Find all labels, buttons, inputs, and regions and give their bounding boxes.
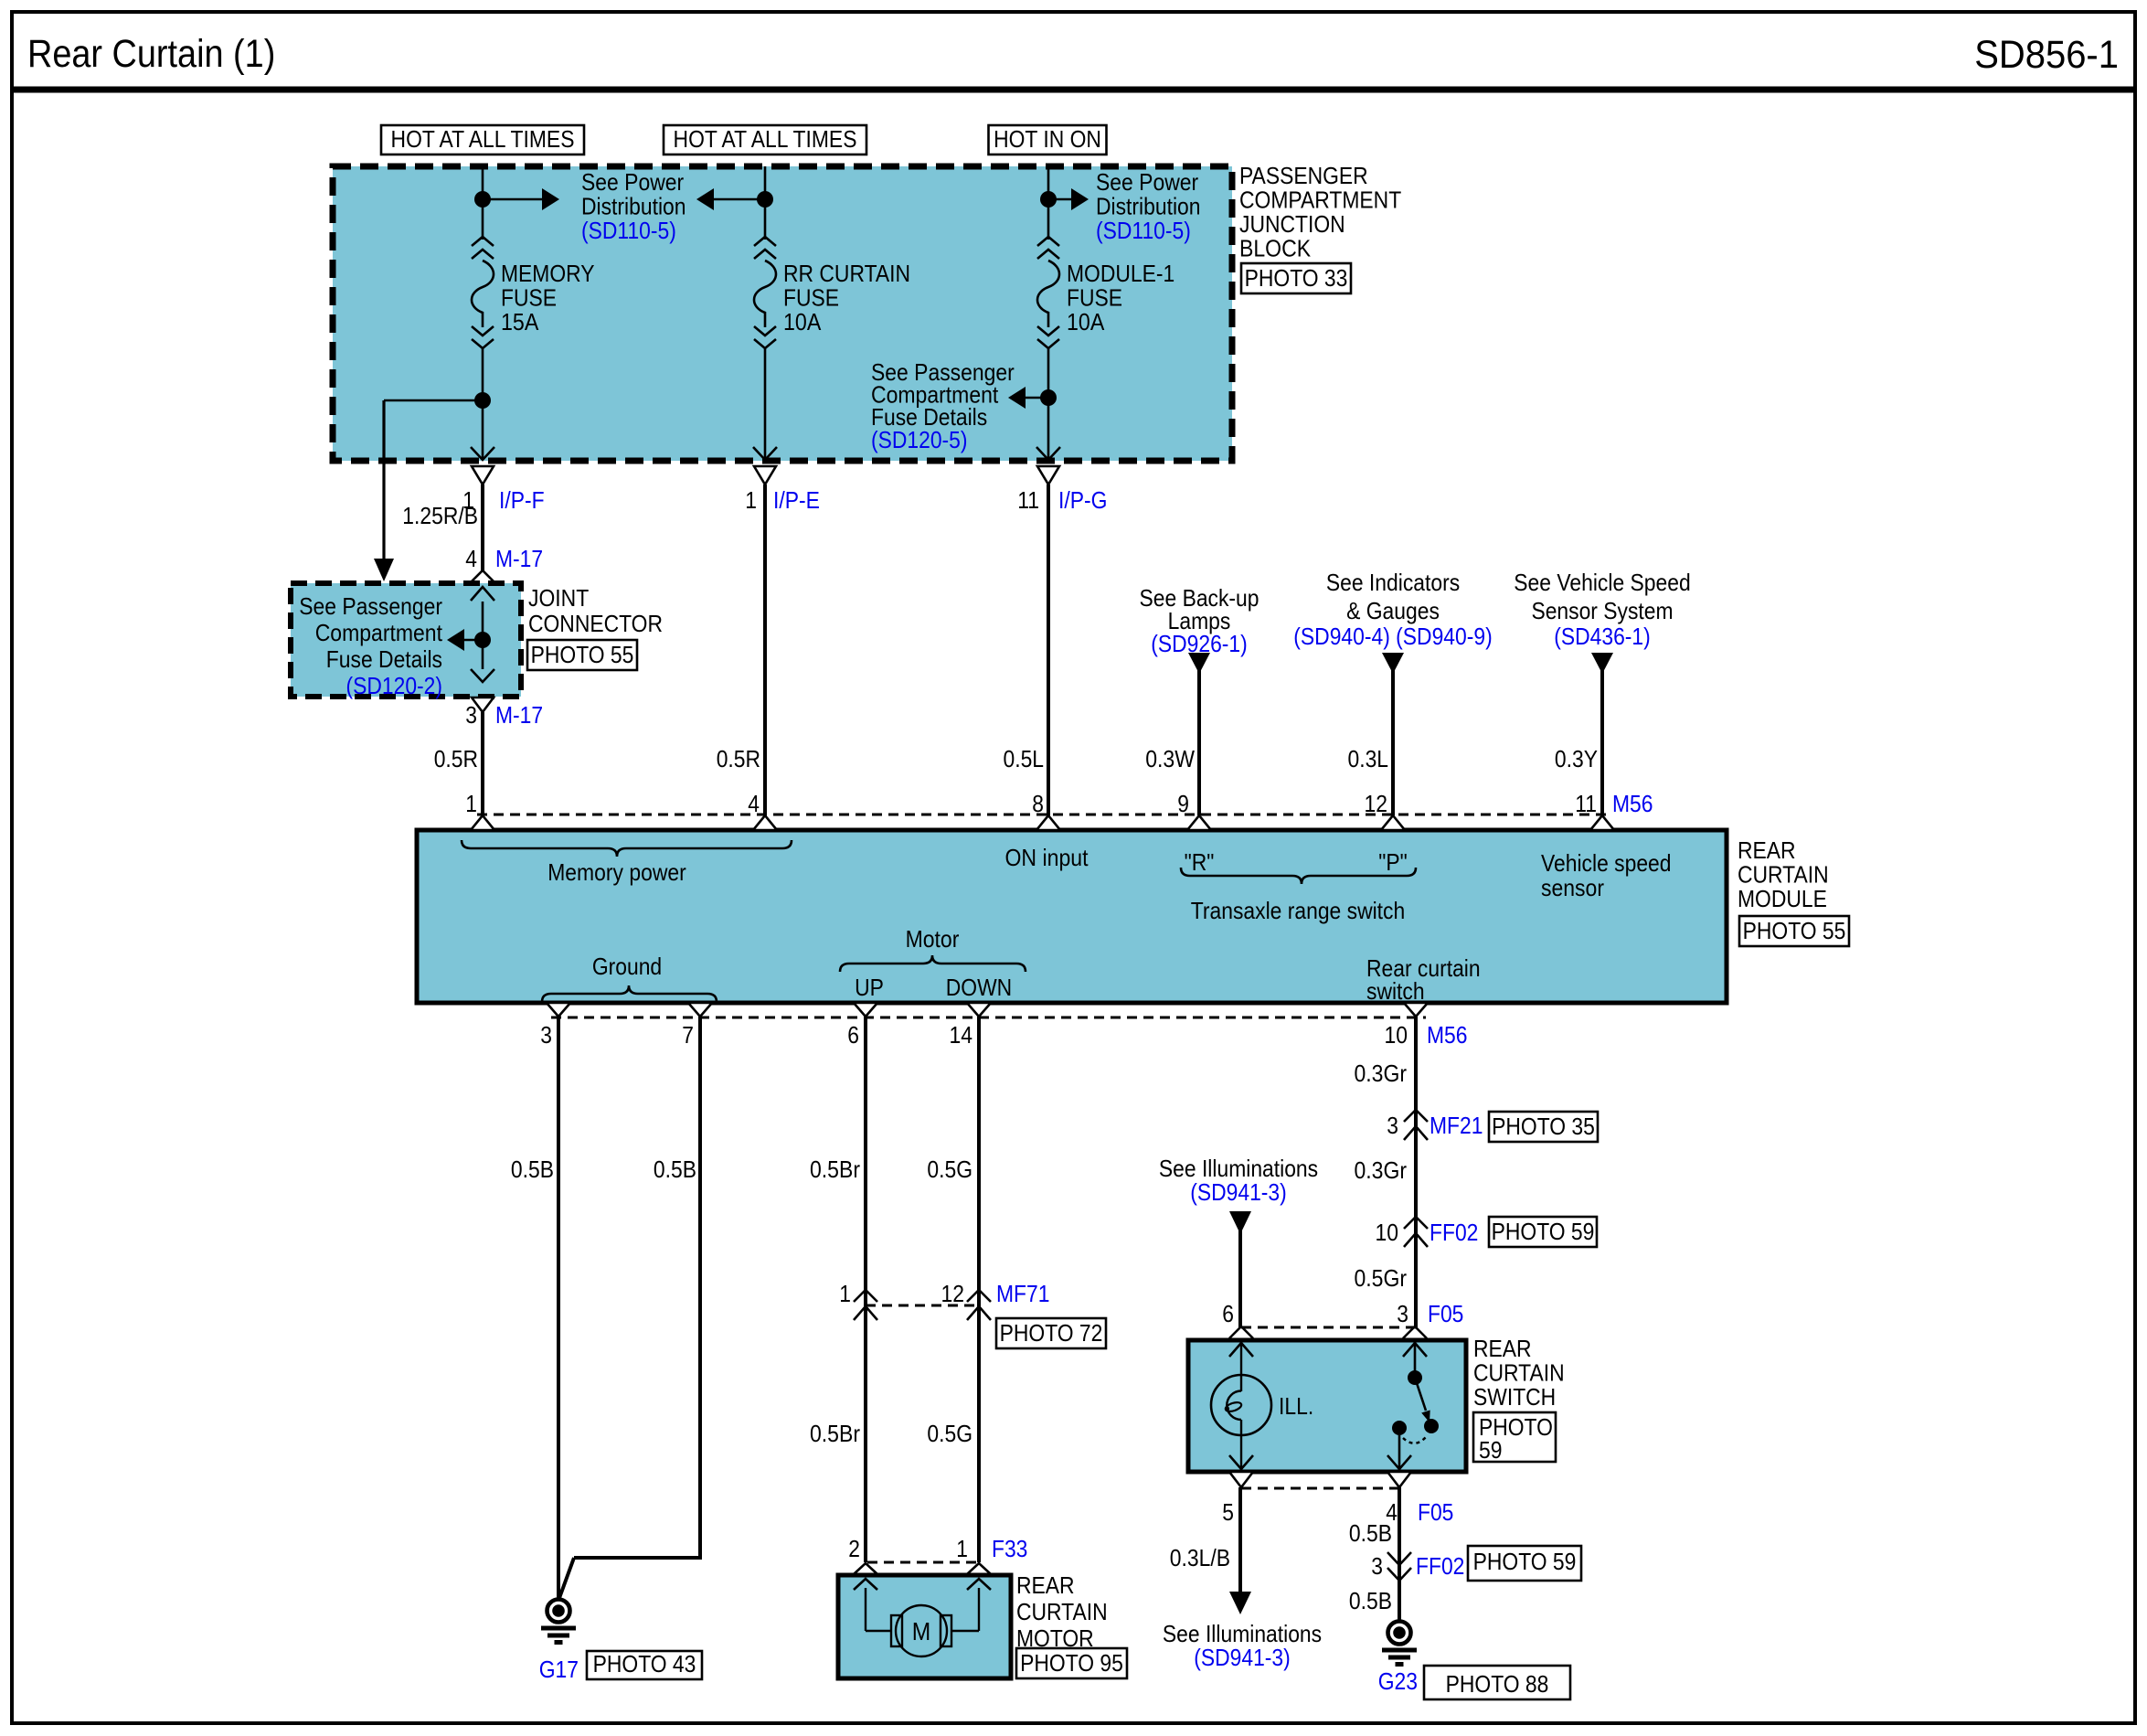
- svg-text:FUSE: FUSE: [501, 284, 557, 312]
- svg-text:(SD940-4) (SD940-9): (SD940-4) (SD940-9): [1293, 623, 1492, 650]
- svg-text:See Indicators: See Indicators: [1326, 569, 1460, 596]
- svg-text:ON input: ON input: [1005, 844, 1089, 871]
- svg-text:12: 12: [941, 1280, 965, 1307]
- svg-text:7: 7: [682, 1021, 694, 1049]
- svg-text:F33: F33: [992, 1535, 1027, 1562]
- svg-text:REAR: REAR: [1473, 1335, 1532, 1362]
- svg-text:Sensor System: Sensor System: [1531, 597, 1673, 624]
- svg-text:G23: G23: [1378, 1667, 1418, 1695]
- svg-text:4: 4: [748, 790, 760, 817]
- svg-text:DOWN: DOWN: [946, 974, 1012, 1001]
- svg-text:0.3L/B: 0.3L/B: [1170, 1544, 1230, 1571]
- svg-text:MF71: MF71: [996, 1280, 1050, 1307]
- svg-text:PHOTO 35: PHOTO 35: [1492, 1113, 1595, 1140]
- svg-text:COMPARTMENT: COMPARTMENT: [1239, 186, 1401, 214]
- svg-text:"R": "R": [1185, 848, 1215, 876]
- svg-text:UP: UP: [855, 974, 884, 1001]
- svg-text:(SD110-5): (SD110-5): [581, 217, 676, 244]
- svg-text:15A: 15A: [501, 308, 539, 335]
- svg-text:FUSE: FUSE: [783, 284, 839, 312]
- svg-text:CONNECTOR: CONNECTOR: [528, 610, 663, 637]
- svg-text:See Passenger: See Passenger: [299, 592, 442, 620]
- svg-text:0.3W: 0.3W: [1145, 745, 1195, 772]
- svg-text:(SD941-3): (SD941-3): [1190, 1178, 1287, 1206]
- svg-text:PHOTO 95: PHOTO 95: [1020, 1649, 1123, 1677]
- svg-text:3: 3: [1371, 1552, 1383, 1580]
- svg-text:6: 6: [847, 1021, 859, 1049]
- svg-text:MF21: MF21: [1430, 1112, 1483, 1139]
- svg-text:12: 12: [1365, 790, 1388, 817]
- svg-text:Motor: Motor: [906, 925, 960, 953]
- svg-text:CURTAIN: CURTAIN: [1738, 861, 1829, 889]
- svg-text:11: 11: [1575, 790, 1597, 817]
- svg-text:HOT AT ALL TIMES: HOT AT ALL TIMES: [674, 125, 857, 153]
- svg-text:SWITCH: SWITCH: [1473, 1383, 1556, 1411]
- svg-text:10A: 10A: [783, 308, 822, 335]
- svg-text:REAR: REAR: [1738, 836, 1796, 864]
- svg-text:0.3Gr: 0.3Gr: [1355, 1156, 1408, 1184]
- svg-text:0.3Y: 0.3Y: [1555, 745, 1598, 772]
- svg-text:PHOTO 88: PHOTO 88: [1446, 1670, 1549, 1698]
- svg-text:F05: F05: [1428, 1300, 1463, 1327]
- svg-text:0.5Br: 0.5Br: [810, 1420, 860, 1447]
- svg-text:F05: F05: [1418, 1498, 1453, 1526]
- svg-text:M-17: M-17: [495, 545, 543, 572]
- svg-text:PHOTO 59: PHOTO 59: [1473, 1548, 1577, 1575]
- svg-text:& Gauges: & Gauges: [1346, 597, 1440, 624]
- svg-text:MEMORY: MEMORY: [501, 260, 595, 287]
- svg-text:HOT AT ALL TIMES: HOT AT ALL TIMES: [391, 125, 575, 153]
- svg-text:(SD120-2): (SD120-2): [346, 672, 443, 699]
- svg-text:3: 3: [1397, 1300, 1408, 1327]
- svg-text:M: M: [912, 1617, 931, 1645]
- svg-text:M-17: M-17: [495, 701, 543, 729]
- svg-text:Distribution: Distribution: [1096, 193, 1201, 220]
- svg-text:3: 3: [540, 1021, 552, 1049]
- svg-text:1: 1: [956, 1535, 968, 1562]
- svg-text:PHOTO 55: PHOTO 55: [1743, 917, 1846, 944]
- svg-text:CURTAIN: CURTAIN: [1016, 1598, 1108, 1625]
- svg-text:"P": "P": [1378, 848, 1408, 876]
- svg-text:M56: M56: [1612, 790, 1653, 817]
- svg-text:PHOTO 55: PHOTO 55: [531, 641, 634, 668]
- svg-text:See Vehicle Speed: See Vehicle Speed: [1514, 569, 1690, 596]
- svg-text:JOINT: JOINT: [528, 584, 589, 612]
- svg-text:I/P-E: I/P-E: [773, 486, 820, 514]
- svg-text:1: 1: [745, 486, 757, 514]
- svg-text:Vehicle speed: Vehicle speed: [1541, 849, 1672, 877]
- svg-text:ILL.: ILL.: [1279, 1392, 1313, 1420]
- svg-text:G17: G17: [539, 1656, 579, 1683]
- svg-text:0.3L: 0.3L: [1348, 745, 1389, 772]
- svg-text:0.5G: 0.5G: [927, 1156, 973, 1183]
- svg-text:0.5Gr: 0.5Gr: [1355, 1264, 1408, 1292]
- svg-text:FF02: FF02: [1430, 1219, 1478, 1246]
- svg-text:1: 1: [465, 790, 477, 817]
- svg-text:(SD941-3): (SD941-3): [1194, 1644, 1291, 1671]
- svg-text:(SD110-5): (SD110-5): [1096, 217, 1191, 244]
- svg-text:Ground: Ground: [592, 953, 662, 980]
- svg-text:MODULE-1: MODULE-1: [1067, 260, 1174, 287]
- svg-text:HOT IN ON: HOT IN ON: [994, 125, 1101, 153]
- svg-text:PHOTO 72: PHOTO 72: [1000, 1319, 1103, 1347]
- svg-text:11: 11: [1017, 486, 1039, 514]
- svg-text:PHOTO 33: PHOTO 33: [1245, 264, 1348, 292]
- svg-text:PHOTO 59: PHOTO 59: [1492, 1218, 1595, 1245]
- svg-text:See Power: See Power: [1096, 168, 1198, 196]
- svg-text:Memory power: Memory power: [547, 858, 686, 886]
- svg-text:0.5R: 0.5R: [434, 745, 478, 772]
- svg-text:BLOCK: BLOCK: [1239, 235, 1312, 262]
- svg-text:1: 1: [462, 486, 474, 514]
- svg-text:I/P-F: I/P-F: [499, 486, 545, 514]
- svg-text:MODULE: MODULE: [1738, 885, 1827, 912]
- svg-text:0.5B: 0.5B: [511, 1156, 554, 1183]
- svg-text:0.5B: 0.5B: [654, 1156, 696, 1183]
- svg-text:0.5R: 0.5R: [717, 745, 760, 772]
- svg-text:REAR: REAR: [1016, 1571, 1075, 1599]
- svg-text:5: 5: [1222, 1498, 1234, 1526]
- svg-text:3: 3: [465, 701, 477, 729]
- svg-text:JUNCTION: JUNCTION: [1239, 210, 1345, 238]
- svg-text:59: 59: [1479, 1436, 1503, 1464]
- svg-text:PASSENGER: PASSENGER: [1239, 162, 1368, 189]
- svg-text:4: 4: [465, 545, 477, 572]
- svg-text:0.5B: 0.5B: [1349, 1519, 1392, 1547]
- svg-text:sensor: sensor: [1541, 874, 1604, 901]
- svg-text:SD856-1: SD856-1: [1974, 33, 2119, 77]
- svg-text:0.5G: 0.5G: [927, 1420, 973, 1447]
- svg-text:RR CURTAIN: RR CURTAIN: [783, 260, 910, 287]
- svg-text:Rear Curtain (1): Rear Curtain (1): [27, 32, 275, 76]
- svg-text:14: 14: [950, 1021, 973, 1049]
- svg-text:Fuse Details: Fuse Details: [326, 645, 442, 673]
- svg-text:2: 2: [848, 1535, 860, 1562]
- svg-text:Transaxle range switch: Transaxle range switch: [1191, 897, 1405, 924]
- svg-text:1: 1: [839, 1280, 851, 1307]
- svg-text:0.5B: 0.5B: [1349, 1587, 1392, 1614]
- svg-text:switch: switch: [1366, 977, 1425, 1005]
- svg-text:CURTAIN: CURTAIN: [1473, 1359, 1565, 1387]
- svg-text:0.5Br: 0.5Br: [810, 1156, 860, 1183]
- svg-text:10A: 10A: [1067, 308, 1105, 335]
- svg-text:0.3Gr: 0.3Gr: [1355, 1060, 1408, 1087]
- svg-text:9: 9: [1177, 790, 1189, 817]
- svg-text:See Power: See Power: [581, 168, 684, 196]
- svg-text:FF02: FF02: [1416, 1552, 1464, 1580]
- svg-text:10: 10: [1385, 1021, 1408, 1049]
- svg-text:M56: M56: [1427, 1021, 1468, 1049]
- svg-text:(SD436-1): (SD436-1): [1554, 623, 1651, 650]
- svg-text:6: 6: [1222, 1300, 1234, 1327]
- svg-text:3: 3: [1387, 1112, 1398, 1139]
- svg-text:Compartment: Compartment: [315, 619, 443, 646]
- svg-text:8: 8: [1032, 790, 1044, 817]
- svg-text:10: 10: [1376, 1219, 1399, 1246]
- svg-text:FUSE: FUSE: [1067, 284, 1122, 312]
- svg-text:0.5L: 0.5L: [1004, 745, 1045, 772]
- svg-text:PHOTO 43: PHOTO 43: [593, 1650, 696, 1677]
- svg-text:(SD120-5): (SD120-5): [871, 426, 968, 453]
- svg-text:I/P-G: I/P-G: [1058, 486, 1107, 514]
- svg-text:Distribution: Distribution: [581, 193, 686, 220]
